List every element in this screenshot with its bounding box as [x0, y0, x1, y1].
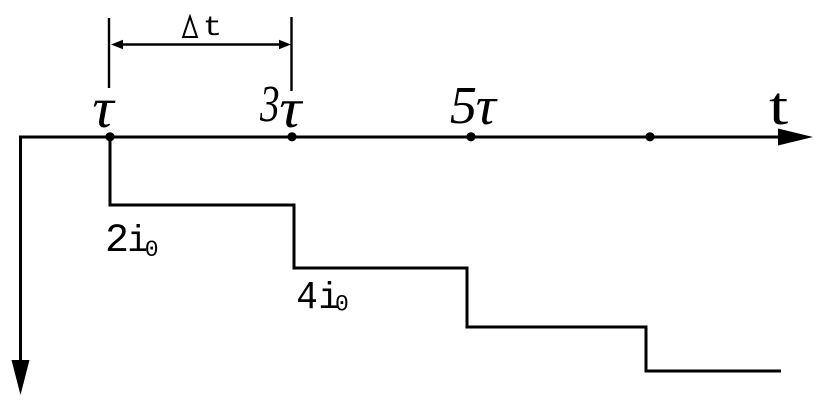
current axis i (vertical, downward)	[19, 136, 22, 363]
svg-text:3: 3	[259, 75, 279, 132]
svg-text:τ: τ	[92, 76, 115, 140]
time axis arrowhead	[778, 129, 813, 146]
svg-text:τ: τ	[476, 76, 498, 136]
node dot at 5tau	[466, 132, 475, 141]
dimension label delta	[183, 17, 197, 37]
svg-text:0: 0	[145, 237, 159, 263]
node dot at 7tau	[645, 132, 654, 141]
dimension extension tick at tau	[108, 18, 110, 88]
current axis arrowhead	[12, 360, 30, 395]
svg-text:2: 2	[105, 219, 129, 264]
svg-text:0: 0	[335, 291, 349, 317]
svg-text:t: t	[769, 77, 788, 136]
svg-text:t: t	[203, 13, 222, 45]
dimension left arrowhead	[111, 40, 123, 50]
node dot at tau	[105, 132, 114, 141]
dimension arrow line delta-t	[118, 43, 284, 45]
staircase current waveform	[110, 137, 781, 371]
time axis t (horizontal)	[19, 136, 780, 139]
svg-text:5: 5	[450, 75, 477, 134]
svg-text:4: 4	[296, 275, 318, 320]
dimension right arrowhead	[279, 40, 291, 50]
node dot at 3tau	[287, 132, 296, 141]
dimension extension tick at 3tau	[290, 17, 292, 91]
